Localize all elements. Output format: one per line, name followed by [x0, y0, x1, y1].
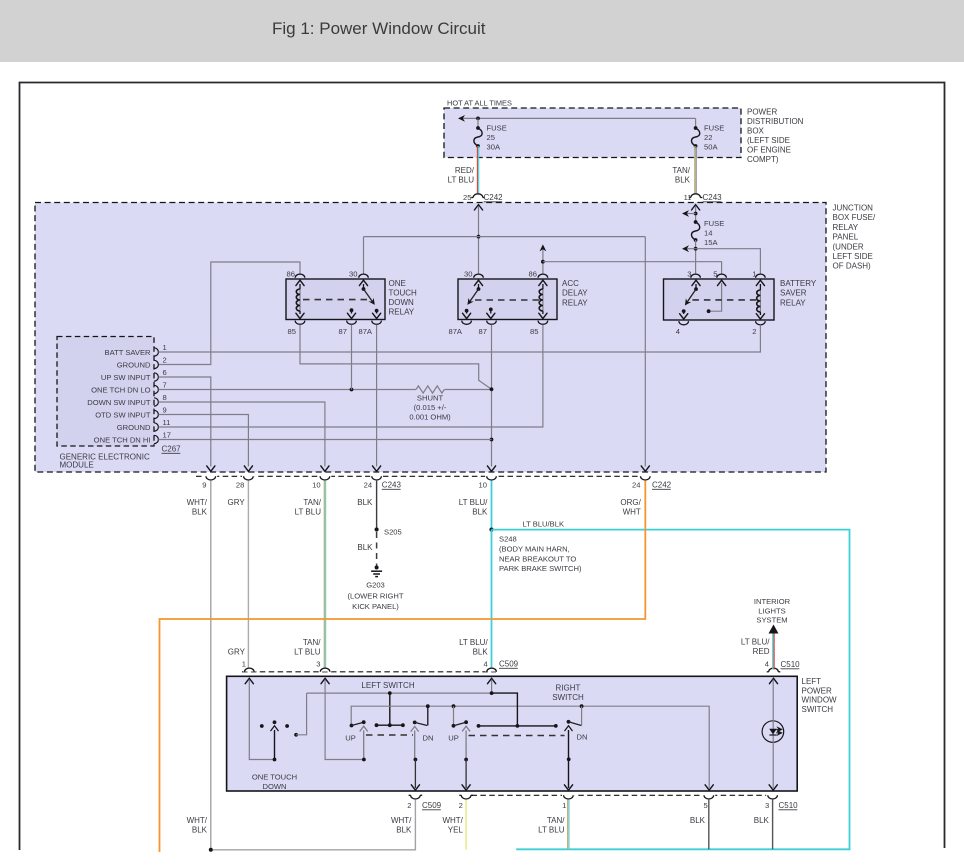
svg-text:RELAY: RELAY	[562, 298, 588, 307]
arrow at connector 24 C243	[373, 466, 381, 471]
svg-text:C509: C509	[422, 801, 442, 810]
svg-text:LEFT SIDE: LEFT SIDE	[833, 252, 873, 261]
svg-text:C267: C267	[162, 445, 182, 454]
node: GEM pin17 junction at ACC 87	[490, 438, 494, 442]
svg-text:24: 24	[364, 481, 372, 490]
node: ACC 86 tap	[541, 260, 545, 264]
svg-text:FUSE: FUSE	[704, 124, 724, 133]
node: bus arrow tap above fuse 14	[694, 212, 698, 216]
arrow into switch from pin 3	[321, 678, 329, 683]
svg-text:4: 4	[676, 327, 680, 336]
connector bump at x=248.4	[242, 475, 255, 479]
svg-text:17: 17	[163, 431, 171, 440]
continuation arrow left above fuse 14	[684, 213, 696, 215]
svg-text:RELAY: RELAY	[780, 298, 806, 307]
wire LT BLU/RED to switch pin 4 C510	[772, 634, 774, 670]
svg-text:RED: RED	[753, 647, 770, 656]
svg-text:C243: C243	[703, 193, 723, 202]
svg-text:DISTRIBUTION: DISTRIBUTION	[747, 117, 804, 126]
svg-text:FUSE: FUSE	[487, 124, 507, 133]
svg-text:85: 85	[288, 327, 296, 336]
svg-text:24: 24	[632, 481, 640, 490]
svg-text:S248: S248	[499, 535, 517, 544]
one touch output contact	[294, 733, 298, 737]
wire left DN stationary	[427, 706, 429, 725]
svg-text:RELAY: RELAY	[389, 308, 415, 317]
battery relay pin5 contact	[718, 280, 726, 285]
GEM pin 2 GROUND	[154, 360, 158, 368]
wire LT BLU/BLK S248 down to switch pin 4	[491, 530, 493, 669]
wire GEM pin8 DOWN SW INPUT to connector pin 10	[159, 402, 325, 467]
svg-text:5: 5	[703, 801, 707, 810]
svg-text:87: 87	[339, 327, 347, 336]
right switch center bar	[492, 693, 518, 726]
acc relay switch arm	[474, 280, 482, 285]
svg-text:(UNDER: (UNDER	[833, 242, 864, 251]
power distribution box (dashed)	[444, 108, 741, 158]
arrow at connector 24 C242	[641, 466, 649, 471]
battery relay switch arm	[692, 280, 700, 285]
node: pin4 feed on bus	[490, 691, 494, 695]
svg-text:25: 25	[463, 193, 471, 202]
svg-text:TOUCH: TOUCH	[389, 289, 418, 298]
svg-text:DOWN: DOWN	[262, 782, 286, 791]
svg-text:(LEFT SIDE: (LEFT SIDE	[747, 136, 790, 145]
wire TAN/LT BLU pin10 down to switch pin 3	[323, 481, 325, 669]
generic electronic module box (dashed)	[57, 337, 154, 447]
svg-text:3: 3	[316, 660, 320, 669]
node: bus tap at C242 feed	[477, 235, 481, 239]
LED symbol	[769, 729, 777, 735]
svg-text:OTD SW INPUT: OTD SW INPUT	[95, 410, 151, 419]
svg-text:C510: C510	[781, 660, 801, 669]
node: shunt junction at ACC 87	[490, 387, 494, 391]
svg-text:WINDOW: WINDOW	[802, 696, 838, 705]
svg-text:9: 9	[202, 481, 206, 490]
wire WHT/BLK switch pin2 down and left to splice	[211, 800, 416, 850]
svg-text:28: 28	[236, 481, 244, 490]
wire GEM pin1 BATT SAVER to battery relay pin 2	[159, 325, 761, 352]
pin 87A bump (acc relay)	[462, 321, 472, 325]
wire TAN/LT BLU inside switch to UP arm	[325, 680, 362, 760]
wire LT BLU/BLK branch right and down right side	[492, 530, 850, 850]
svg-text:(BODY MAIN HARN,: (BODY MAIN HARN,	[499, 545, 570, 554]
GEM pin 6 UP SW INPUT	[154, 373, 158, 381]
arrow into junction box from C243	[692, 205, 700, 210]
node: one touch 87 junction on shunt line	[350, 388, 354, 392]
wire WHT/BLK pin9 down to bottom splice	[210, 481, 212, 850]
wire right UP stationary	[453, 706, 455, 726]
one touch relay 87A contact	[375, 309, 379, 313]
left switch center contact bar	[389, 693, 391, 725]
svg-text:ACC: ACC	[562, 279, 579, 288]
node: WHT/BLK bottom junction	[209, 848, 213, 852]
wire one-touch pin 87 down	[351, 325, 353, 390]
arrow into switch from pin 1	[245, 678, 253, 683]
svg-text:50A: 50A	[704, 143, 718, 152]
svg-text:(LOWER RIGHT: (LOWER RIGHT	[347, 592, 403, 601]
svg-text:WHT: WHT	[623, 508, 641, 517]
wire C243 feed to fuse 14	[695, 206, 697, 222]
svg-text:LT BLU: LT BLU	[538, 826, 565, 835]
switch top bump at x=249.3	[243, 668, 256, 672]
right UP switch arm	[452, 724, 456, 728]
connector bump at x=376.6	[370, 475, 383, 479]
svg-text:LT BLU: LT BLU	[295, 508, 322, 517]
svg-text:BOX FUSE/: BOX FUSE/	[833, 213, 876, 222]
svg-text:1: 1	[752, 270, 756, 279]
wire GRY inside switch to one touch arm	[249, 680, 272, 760]
svg-text:ORG/: ORG/	[620, 498, 641, 507]
svg-text:POWER: POWER	[747, 108, 777, 117]
left switch linkage (dashed)	[366, 734, 413, 736]
GEM pin 1 BATT SAVER	[154, 348, 158, 356]
pin 3 bump (battery relay)	[691, 274, 701, 278]
svg-text:3: 3	[765, 801, 769, 810]
svg-text:C510: C510	[779, 801, 799, 810]
svg-text:30: 30	[349, 270, 357, 279]
connector C242 pin 25 bump	[473, 194, 483, 198]
svg-text:SWITCH: SWITCH	[552, 693, 584, 702]
one touch relay linkage (dashed)	[303, 299, 369, 301]
wire bus to fuse 25	[477, 118, 479, 128]
svg-text:LEFT: LEFT	[802, 677, 822, 686]
relay U3 BATTERY SAVER RELAY box	[664, 279, 775, 320]
svg-text:2: 2	[163, 356, 167, 365]
svg-text:86: 86	[287, 270, 295, 279]
switch connector C509 bracket top (dashed)	[242, 671, 496, 673]
wire GEM pin7 ONE TCH DN LO to shunt	[159, 389, 417, 391]
svg-text:WHT/: WHT/	[187, 498, 208, 507]
pin 86 bump (acc relay)	[538, 274, 548, 278]
one touch relay 87 contact	[350, 308, 354, 312]
arrow at connector pin 10	[487, 466, 495, 471]
arrow at connector pin 9	[207, 466, 215, 471]
svg-text:BLK: BLK	[192, 508, 208, 517]
svg-text:WHT/: WHT/	[442, 816, 463, 825]
GEM pin 9 OTD SW INPUT	[154, 410, 158, 418]
svg-text:22: 22	[704, 133, 712, 142]
svg-text:S205: S205	[384, 528, 402, 537]
wire ACC relay pin 86 feed and arrow to bus	[542, 247, 544, 274]
arrow into switch from pin 4 C510	[769, 678, 777, 683]
switch top bump at x=491.6	[485, 668, 498, 672]
svg-text:BLK: BLK	[473, 648, 489, 657]
svg-text:C242: C242	[484, 193, 504, 202]
one touch down switch	[260, 724, 264, 728]
relay U2 ACC DELAY RELAY box	[458, 279, 557, 320]
one touch relay switch arm	[359, 280, 367, 285]
connector bump at x=645.3	[639, 475, 652, 479]
svg-text:11: 11	[684, 193, 692, 202]
svg-text:DOWN: DOWN	[389, 298, 415, 307]
svg-text:GRY: GRY	[227, 498, 245, 507]
svg-text:2: 2	[459, 801, 463, 810]
svg-text:15A: 15A	[704, 238, 718, 247]
acc relay linkage (dashed)	[475, 299, 540, 301]
svg-text:5: 5	[713, 270, 717, 279]
up/down feed bus in switch	[351, 706, 709, 788]
junction box fuse/relay panel (dashed)	[35, 203, 826, 473]
wire ACC pin 87 down to connector pin 10	[491, 325, 493, 467]
svg-text:SYSTEM: SYSTEM	[756, 616, 787, 625]
svg-text:LT BLU: LT BLU	[294, 648, 321, 657]
svg-text:RIGHT: RIGHT	[556, 684, 581, 693]
svg-text:SAVER: SAVER	[780, 289, 807, 298]
wire right DN stationary	[581, 706, 583, 725]
svg-text:BLK: BLK	[472, 508, 488, 517]
svg-text:C242: C242	[652, 481, 672, 490]
GEM pin 17 ONE TCH DN HI	[154, 435, 158, 443]
wire ACC 86 to battery saver pin 5	[543, 262, 722, 274]
svg-text:7: 7	[163, 381, 167, 390]
svg-text:UP SW INPUT: UP SW INPUT	[101, 373, 151, 382]
svg-text:85: 85	[530, 327, 538, 336]
svg-text:8: 8	[163, 393, 167, 402]
right DN switch arm	[567, 720, 571, 724]
svg-text:6: 6	[163, 368, 167, 377]
connector C243 pin 11 bump	[691, 194, 701, 198]
svg-text:14: 14	[704, 229, 712, 238]
wire fuse 22 feed	[695, 118, 697, 128]
connector bump at x=210.8	[204, 475, 217, 479]
GEM pin 7 ONE TCH DN LO	[154, 385, 158, 393]
svg-text:YEL: YEL	[448, 826, 464, 835]
svg-text:BATT SAVER: BATT SAVER	[105, 348, 152, 357]
svg-text:DN: DN	[577, 733, 588, 742]
svg-text:10: 10	[479, 481, 487, 490]
switch feed bus (one touch to right switch)	[307, 692, 492, 694]
node: right DN stationary tap	[580, 704, 584, 708]
arrow to interior lights system	[769, 625, 779, 634]
svg-text:BATTERY: BATTERY	[780, 279, 817, 288]
arrow into switch from pin 4	[488, 678, 496, 683]
pin 86 bump (one touch relay)	[295, 274, 305, 278]
battery relay linkage (dashed)	[692, 299, 757, 301]
svg-text:PANEL: PANEL	[833, 233, 859, 242]
svg-text:TAN/: TAN/	[303, 638, 321, 647]
svg-text:4: 4	[483, 660, 487, 669]
acc relay 87A contact	[465, 309, 469, 313]
svg-text:WHT/: WHT/	[391, 816, 412, 825]
pin 87 bump (one touch relay)	[347, 321, 357, 325]
wire shunt to ACC 87 node	[444, 389, 491, 391]
bus continuation arrow (left)	[458, 115, 465, 122]
junction box bottom connector bracket (dashed)	[196, 475, 652, 477]
svg-text:JUNCTION: JUNCTION	[833, 204, 874, 213]
svg-text:1: 1	[242, 660, 246, 669]
pin 1 bump (battery relay)	[756, 274, 766, 278]
node: right UP stationary tap	[452, 704, 456, 708]
svg-text:87A: 87A	[358, 327, 372, 336]
acc relay 87 contact	[489, 308, 493, 312]
wire GEM pin2 ground to one-touch relay pin 86	[159, 262, 301, 365]
splice S205	[375, 527, 379, 531]
svg-text:2: 2	[752, 327, 756, 336]
acc relay coil	[539, 280, 547, 285]
wire one-touch pin 87A to connector 24 C243	[376, 325, 378, 467]
arrow into junction box from C242	[474, 205, 482, 210]
wire BLK dashed to ground	[376, 532, 378, 567]
arrow switch pin 5 bottom	[705, 785, 713, 790]
svg-text:HOT AT ALL TIMES: HOT AT ALL TIMES	[447, 99, 512, 108]
pin 85 bump (one touch relay)	[295, 321, 305, 325]
svg-text:ONE TCH DN LO: ONE TCH DN LO	[91, 385, 150, 394]
svg-text:OF DASH): OF DASH)	[833, 262, 872, 271]
wire C242 feed down to ACC relay pin 30	[478, 206, 480, 274]
wire GEM pin6 UP SW INPUT to connector pin 9	[159, 377, 211, 467]
wire BLK switch pin3 down	[772, 800, 774, 850]
wire BLK pin24 down to splice S205	[376, 481, 378, 530]
svg-text:1: 1	[562, 801, 566, 810]
svg-text:LT BLU/: LT BLU/	[459, 638, 488, 647]
wire TAN/LT BLU switch pin1 down	[567, 800, 569, 850]
node: tap below fuse 14	[694, 247, 698, 251]
wire through LED	[772, 680, 774, 789]
splice S248	[489, 528, 493, 532]
pin 4 bump (battery relay)	[679, 321, 689, 325]
svg-text:TAN/: TAN/	[672, 166, 690, 175]
svg-text:25: 25	[487, 133, 495, 142]
svg-text:RELAY: RELAY	[833, 223, 859, 232]
svg-text:C243: C243	[382, 481, 402, 490]
wire GEM pin11 GROUND to ACC pin 85	[159, 325, 543, 427]
fuse 22 50A	[694, 126, 698, 130]
svg-text:BLK: BLK	[357, 498, 373, 507]
svg-text:OF ENGINE: OF ENGINE	[747, 146, 791, 155]
fuse 25 30A	[476, 126, 480, 130]
svg-text:10: 10	[312, 481, 320, 490]
svg-text:C509: C509	[499, 660, 519, 669]
svg-text:2: 2	[407, 801, 411, 810]
svg-text:BLK: BLK	[396, 826, 412, 835]
node: fuse 25 tap	[476, 117, 480, 121]
svg-text:WHT/: WHT/	[187, 816, 208, 825]
GEM pin 11 GROUND	[154, 423, 158, 431]
svg-text:LT BLU: LT BLU	[448, 176, 475, 185]
svg-text:LEFT SWITCH: LEFT SWITCH	[361, 681, 414, 690]
svg-text:1: 1	[163, 343, 167, 352]
wire GRY pin28 down to switch pin 1	[247, 481, 249, 669]
left DN switch arm	[413, 721, 417, 725]
svg-text:UP: UP	[448, 734, 459, 743]
svg-text:BLK: BLK	[192, 826, 208, 835]
battery relay pin4 contact	[682, 309, 686, 313]
right switch linkage (dashed)	[469, 735, 565, 737]
wire RED/LT BLU fuse25 to C242	[476, 146, 478, 193]
pin 87A bump (one touch relay)	[372, 321, 382, 325]
wire WHT/YEL switch pin2 down	[465, 800, 467, 850]
fuse 14 15A	[694, 220, 698, 224]
pin 87 bump (acc relay)	[487, 321, 497, 325]
wire fuse 14 to battery saver relay pin 1	[696, 249, 761, 274]
wire one-touch 85 to shunt node	[300, 325, 492, 390]
svg-text:0.001 OHM): 0.001 OHM)	[409, 413, 451, 422]
switch bottom connector bumps and bracket	[411, 795, 421, 799]
svg-text:SHUNT: SHUNT	[417, 394, 444, 403]
svg-text:GRY: GRY	[228, 648, 246, 657]
pin 85 bump (acc relay)	[538, 321, 548, 325]
wire TAN/BLK fuse22 to C243	[694, 146, 696, 193]
svg-text:86: 86	[529, 270, 537, 279]
switch top bump C510 pin 4	[769, 668, 779, 672]
svg-text:LIGHTS: LIGHTS	[758, 606, 785, 615]
wire BLK switch pin5 down	[708, 800, 710, 850]
node: left DN stationary tap	[426, 704, 430, 708]
svg-text:87: 87	[479, 327, 487, 336]
svg-text:KICK PANEL): KICK PANEL)	[352, 602, 399, 611]
svg-text:LT BLU/: LT BLU/	[459, 498, 488, 507]
wire LT BLU/BLK pin10 down to splice S248	[491, 481, 493, 530]
wire GEM pin17 ONE TCH DN HI to ACC 87 wire	[159, 439, 492, 441]
svg-text:(0.015 +/-: (0.015 +/-	[414, 403, 447, 412]
svg-text:TAN/: TAN/	[303, 498, 321, 507]
svg-text:ONE: ONE	[389, 279, 406, 288]
svg-text:RED/: RED/	[455, 166, 475, 175]
svg-text:ONE TCH DN HI: ONE TCH DN HI	[94, 435, 151, 444]
svg-text:TAN/: TAN/	[547, 816, 565, 825]
wire fuse 14 to battery saver relay pin 3	[695, 240, 697, 274]
wire 30-bus horizontal	[364, 236, 646, 238]
svg-text:DELAY: DELAY	[562, 289, 588, 298]
wire bus down to connector 24 C242	[644, 237, 646, 467]
wire GEM pin9 OTD SW INPUT to connector pin 28	[159, 415, 249, 467]
svg-text:UP: UP	[345, 734, 356, 743]
node: left switch center feed	[388, 691, 392, 695]
arrow at connector pin 28	[244, 466, 252, 471]
battery relay coil	[756, 280, 764, 285]
svg-text:30A: 30A	[487, 143, 501, 152]
svg-text:GROUND: GROUND	[117, 360, 151, 369]
ground G203	[375, 566, 379, 570]
svg-text:FUSE: FUSE	[704, 219, 724, 228]
svg-text:DOWN SW INPUT: DOWN SW INPUT	[87, 398, 151, 407]
svg-text:LT BLU/: LT BLU/	[741, 638, 770, 647]
GEM pin 8 DOWN SW INPUT	[154, 398, 158, 406]
svg-text:INTERIOR: INTERIOR	[754, 597, 791, 606]
pin 30 bump (acc relay)	[474, 274, 484, 278]
svg-text:LT BLU/BLK: LT BLU/BLK	[523, 519, 565, 528]
one touch relay coil	[296, 280, 304, 285]
svg-text:3: 3	[687, 270, 691, 279]
arrow at connector pin 10 (tan)	[321, 466, 329, 471]
svg-text:PARK BRAKE SWITCH): PARK BRAKE SWITCH)	[499, 564, 582, 573]
svg-text:BLK: BLK	[357, 543, 373, 552]
relay U1 ONE TOUCH DOWN RELAY box	[286, 279, 385, 320]
svg-text:COMPT): COMPT)	[747, 155, 779, 164]
svg-text:POWER: POWER	[802, 686, 832, 695]
illumination LED circle	[762, 721, 784, 743]
svg-text:NEAR BREAKOUT TO: NEAR BREAKOUT TO	[499, 555, 576, 564]
left power window switch box	[227, 676, 798, 791]
shunt resistor	[416, 386, 444, 393]
svg-text:DN: DN	[423, 734, 434, 743]
svg-text:BLK: BLK	[754, 816, 770, 825]
svg-text:BLK: BLK	[675, 176, 691, 185]
svg-text:GROUND: GROUND	[117, 423, 151, 432]
wire bus down to one touch relay pin 30	[363, 237, 365, 274]
svg-text:G203: G203	[366, 581, 385, 590]
svg-text:ONE TOUCH: ONE TOUCH	[252, 773, 297, 782]
svg-text:4: 4	[765, 660, 769, 669]
wire LT BLU/BLK inside switch to bus	[491, 680, 493, 694]
svg-text:BOX: BOX	[747, 127, 765, 136]
pin 30 bump (one touch relay)	[359, 274, 369, 278]
svg-text:MODULE: MODULE	[60, 461, 94, 470]
svg-text:BLK: BLK	[690, 816, 706, 825]
continuation arrow left below fuse 14	[684, 248, 696, 250]
svg-text:87A: 87A	[448, 327, 462, 336]
